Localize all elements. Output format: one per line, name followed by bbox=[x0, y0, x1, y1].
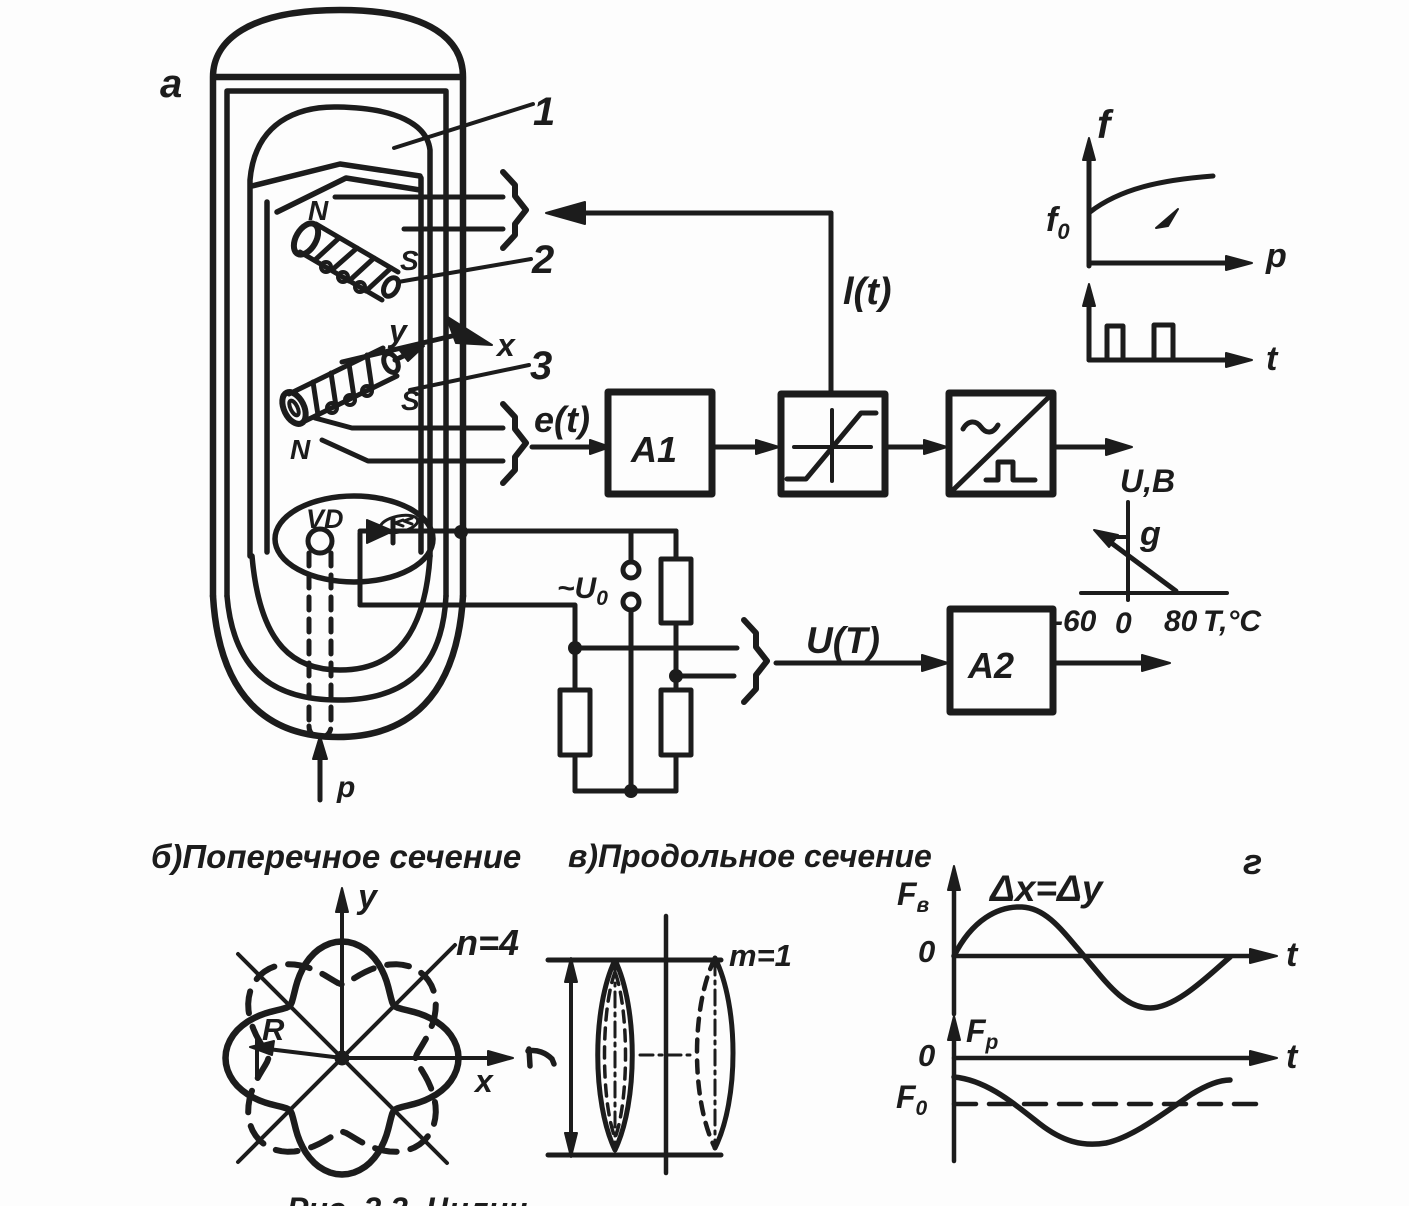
dashed lens mode shape bbox=[697, 958, 733, 1148]
arrow e(t) into A1 bbox=[532, 440, 610, 454]
svg-text:f: f bbox=[1097, 103, 1114, 147]
output arrow of converter bbox=[1053, 439, 1132, 455]
photodiode VD bbox=[306, 504, 344, 553]
small dart mark bbox=[1156, 209, 1178, 228]
graph f vs p : p axis bbox=[1089, 237, 1287, 275]
longitudinal center vertical bbox=[664, 916, 669, 1173]
svg-text:2: 2 bbox=[531, 238, 554, 282]
svg-text:U,B: U,B bbox=[1120, 463, 1175, 499]
resonator cut shelf bbox=[252, 164, 420, 212]
AC source terminals ~U0 bbox=[557, 531, 639, 791]
svg-text:б)Поперечное сечение: б)Поперечное сечение bbox=[151, 838, 521, 875]
svg-text:A2: A2 bbox=[967, 645, 1014, 686]
svg-text:Fв: Fв bbox=[897, 876, 930, 917]
resistor R2 (bottom left arm) bbox=[560, 648, 590, 791]
label l rotated bbox=[528, 1049, 554, 1066]
svg-text:m=1: m=1 bbox=[729, 938, 792, 973]
amplifier block A2 bbox=[950, 609, 1053, 712]
x axis arrow of resonator bbox=[342, 316, 516, 363]
solid lens mode shape bbox=[598, 960, 633, 1150]
LED with cathode bar bbox=[360, 512, 419, 543]
svg-text:e(t): e(t) bbox=[534, 399, 590, 440]
label U(T) and arrow to A2 bbox=[776, 620, 948, 671]
Fp t axis bbox=[954, 1038, 1299, 1076]
brace bridge output bbox=[744, 620, 767, 702]
axis numbers bbox=[1053, 605, 1262, 640]
svg-text:t: t bbox=[1286, 1038, 1299, 1076]
Fv sine curve bbox=[954, 907, 1230, 1008]
longitudinal top line bbox=[548, 958, 721, 963]
rosette diagonal lines bbox=[238, 945, 455, 1163]
resonator cylinder 1 bbox=[250, 107, 430, 670]
F0 dashed level bbox=[954, 1102, 1266, 1107]
coil 2 output wires bbox=[335, 197, 503, 229]
leader line and label 2 bbox=[398, 238, 554, 282]
Fv t axis bbox=[954, 936, 1299, 974]
svg-text:p: p bbox=[1265, 237, 1287, 275]
svg-text:T,°C: T,°C bbox=[1203, 605, 1262, 638]
svg-text:l(t): l(t) bbox=[843, 271, 892, 313]
svg-text:в)Продольное сечение: в)Продольное сечение bbox=[568, 838, 932, 874]
node dot left output bbox=[568, 641, 582, 655]
longitudinal bottom line bbox=[548, 1153, 721, 1158]
coil 3 output wires bbox=[315, 418, 503, 461]
node dot right output bbox=[669, 669, 683, 683]
output arrow of A2 bbox=[1053, 655, 1170, 671]
svg-text:0: 0 bbox=[1115, 607, 1132, 640]
svg-text:f0: f0 bbox=[1046, 201, 1070, 244]
bridge output wire 2 bbox=[676, 674, 734, 679]
y axis arrow of resonator bbox=[387, 313, 424, 361]
arrow limiter to converter bbox=[885, 440, 947, 454]
pulse 2 bbox=[1154, 325, 1173, 360]
length dimension arrow bbox=[565, 958, 577, 1157]
rosette y axis bbox=[336, 878, 379, 1058]
svg-text:Рис. 3.2. Цилин: Рис. 3.2. Цилин bbox=[287, 1191, 527, 1206]
f(p) curve bbox=[1090, 176, 1213, 212]
arrow A1 to limiter bbox=[712, 440, 779, 454]
svg-text:R: R bbox=[262, 1012, 285, 1047]
wire from cylinder to bridge left bbox=[360, 605, 575, 648]
svg-text:Δx=Δy: Δx=Δy bbox=[988, 868, 1105, 909]
pulse graph t axis bbox=[1089, 340, 1279, 378]
bridge output wire 1 bbox=[575, 646, 737, 651]
limiter block bbox=[781, 394, 885, 494]
feedback arrow into coil 2 bbox=[546, 202, 831, 224]
component platform ellipse bbox=[275, 496, 433, 582]
Fv graph vertical axis bbox=[897, 866, 960, 1014]
resistor R1 (top right arm) bbox=[661, 559, 691, 623]
rosette x axis bbox=[342, 1051, 513, 1099]
svg-text:N: N bbox=[308, 195, 329, 226]
graph f vs p : f axis bbox=[1083, 103, 1114, 266]
falling line with arrow bbox=[1094, 530, 1176, 591]
svg-text:n=4: n=4 bbox=[456, 922, 519, 963]
tick at U0 level bbox=[1107, 535, 1128, 539]
brace for coil 2 terminals bbox=[503, 172, 526, 248]
svg-text:y: y bbox=[387, 313, 409, 349]
svg-text:80: 80 bbox=[1164, 605, 1198, 638]
magnet coil 2 (upper drive magnet) bbox=[289, 219, 402, 300]
svg-text:p: p bbox=[336, 771, 355, 804]
U,B graph T axis bbox=[1081, 591, 1227, 595]
svg-text:S: S bbox=[400, 245, 419, 276]
leader line and label 1 bbox=[394, 90, 555, 148]
svg-text:y: y bbox=[356, 878, 379, 916]
rosette solid lobes (n=4 mode) bbox=[226, 942, 459, 1175]
rosette center junction dot bbox=[335, 1051, 350, 1066]
brace for coil 3 terminals e(t) bbox=[503, 404, 526, 483]
svg-text:Fp: Fp bbox=[966, 1013, 999, 1054]
wire R1 to node bbox=[674, 623, 679, 676]
svg-text:g: g bbox=[1139, 515, 1161, 553]
svg-text:0: 0 bbox=[918, 934, 935, 969]
svg-text:г: г bbox=[1243, 841, 1262, 882]
svg-text:a: a bbox=[160, 62, 182, 106]
svg-text:U(T): U(T) bbox=[806, 620, 880, 661]
leader line and label 3 bbox=[410, 344, 552, 390]
svg-text:1: 1 bbox=[533, 90, 555, 134]
rosette dashed lobes (opposite phase) bbox=[248, 964, 436, 1152]
pulse graph vertical axis bbox=[1083, 284, 1095, 360]
radius arrow R bbox=[250, 1012, 342, 1078]
bridge bottom wire bbox=[575, 784, 676, 798]
svg-text:t: t bbox=[1266, 340, 1279, 378]
svg-text:F0: F0 bbox=[896, 1079, 928, 1120]
svg-text:x: x bbox=[473, 1063, 494, 1099]
svg-text:3: 3 bbox=[530, 344, 552, 388]
svg-text:N: N bbox=[290, 434, 311, 465]
Fp curve bbox=[954, 1077, 1230, 1144]
resistor R3 (bottom right arm) bbox=[661, 676, 691, 791]
dashed pressure stem bbox=[309, 553, 331, 737]
sensor housing inner case bbox=[227, 91, 446, 700]
LED lead down (L bracket) bbox=[358, 533, 363, 605]
svg-text:0: 0 bbox=[918, 1038, 935, 1073]
svg-text:-60: -60 bbox=[1053, 605, 1097, 638]
wire from LED to bridge top bbox=[393, 525, 676, 559]
svg-text:A1: A1 bbox=[630, 429, 677, 470]
svg-text:x: x bbox=[495, 327, 516, 363]
amplifier block A1 bbox=[608, 392, 712, 494]
svg-text:t: t bbox=[1286, 936, 1299, 974]
pulse 1 bbox=[1107, 326, 1123, 360]
feedback wire i(t) vertical bbox=[829, 213, 834, 392]
magnet coil 3 (lower pickup magnet) bbox=[278, 348, 402, 428]
Fp graph vertical axis bbox=[948, 1013, 999, 1161]
frequency converter block bbox=[949, 393, 1053, 494]
sensor housing outer shell bbox=[213, 10, 463, 737]
pressure arrow p bbox=[313, 736, 355, 804]
center dash-dot mark bbox=[640, 1054, 695, 1057]
U,B graph vertical axis bbox=[1120, 463, 1175, 600]
